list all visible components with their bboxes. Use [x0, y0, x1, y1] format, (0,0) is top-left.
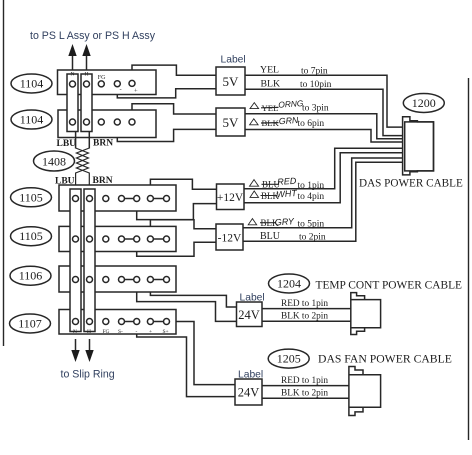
svg-text:to 7pin: to 7pin: [301, 67, 328, 77]
terminal block 1105a: [59, 185, 176, 211]
svg-text:TEMP CONT POWER CABLE: TEMP CONT POWER CABLE: [316, 280, 463, 292]
wire TB1104b plus to 5V: [132, 104, 216, 119]
svg-text:N: N: [71, 72, 75, 78]
terminal block 1106: [59, 266, 176, 292]
svg-text:DAS POWER CABLE: DAS POWER CABLE: [359, 178, 463, 190]
oval 1106: [10, 266, 51, 285]
pin labels 1107: [73, 329, 169, 335]
wire TB1106 plus to 24V(1204): [150, 283, 236, 307]
arrow down H: [85, 339, 93, 362]
terminal block 1104a: [58, 70, 157, 95]
svg-text:5V: 5V: [223, 74, 240, 89]
wire LBU drop: [75, 132, 77, 149]
wire TB1106 minus to 24V(1204): [137, 283, 237, 322]
connector 1205: [349, 367, 381, 416]
label BLU struck: [262, 180, 281, 190]
svg-text:to 4pin: to 4pin: [298, 192, 325, 202]
svg-text:1205: 1205: [277, 352, 301, 366]
oval 1204: [269, 274, 310, 293]
svg-text:YEL: YEL: [260, 64, 279, 75]
oval 1104b: [11, 110, 52, 129]
terminals 1107: [73, 319, 170, 325]
svg-text:GRN: GRN: [278, 115, 299, 126]
wire BRN drop: [88, 132, 90, 149]
delta mark 4: [250, 191, 259, 197]
oval 1408: [34, 151, 75, 171]
svg-text:1105: 1105: [19, 190, 43, 204]
label YEL struck: [262, 103, 279, 113]
svg-text:-12V: -12V: [218, 233, 242, 245]
svg-text:-: -: [136, 329, 138, 335]
svg-text:GRY: GRY: [274, 216, 295, 227]
wire GRN to 6pin: [245, 130, 403, 143]
svg-text:RED to 1pin: RED to 1pin: [281, 299, 328, 309]
wire BLK to 10pin: [245, 89, 403, 135]
delta mark 5: [248, 219, 257, 225]
connector 1200: [403, 117, 434, 175]
svg-text:to PS L Assy or PS H Assy: to PS L Assy or PS H Assy: [30, 30, 156, 42]
terminal block 1105b: [59, 226, 176, 251]
pin labels 1104a: [71, 72, 139, 95]
terminals 1106: [73, 277, 170, 283]
box 24V no.2: [235, 379, 262, 405]
box -12V: [216, 224, 243, 250]
svg-text:to 6pin: to 6pin: [298, 119, 325, 129]
oval 1107: [10, 314, 51, 333]
svg-text:24V: 24V: [238, 386, 260, 400]
svg-text:FG: FG: [98, 75, 106, 81]
wire TB1104a plus to 5V: [132, 65, 216, 80]
svg-text:BLK to 2pin: BLK to 2pin: [281, 389, 328, 399]
label BLK struck 3: [261, 218, 280, 228]
jumper links 1105b: [122, 238, 167, 240]
svg-text:BRN: BRN: [93, 139, 113, 149]
fuse strip H top: [81, 74, 92, 132]
svg-text:FG: FG: [103, 329, 110, 335]
jumper links 1107: [122, 321, 167, 323]
svg-text:LBU: LBU: [57, 139, 77, 149]
terminals 1105b: [73, 236, 170, 242]
label BLK struck: [262, 118, 280, 128]
jumper links 1106: [122, 279, 167, 281]
svg-text:5V: 5V: [223, 115, 240, 130]
svg-text:Label: Label: [221, 55, 246, 66]
svg-text:WHT: WHT: [276, 188, 299, 200]
wire TB1105b plus to -12V: [150, 220, 216, 236]
svg-text:-: -: [120, 87, 122, 94]
jumper links 1105a: [122, 198, 167, 200]
svg-text:S+: S+: [163, 329, 169, 335]
terminal block 1107: [59, 310, 176, 335]
svg-text:1105: 1105: [19, 229, 43, 243]
svg-text:1408: 1408: [42, 155, 66, 169]
svg-text:to 1pin: to 1pin: [298, 181, 325, 191]
wire BLU to 2pin: [243, 162, 403, 241]
wire TB1104a minus to 5V: [117, 87, 216, 98]
arrow down N: [71, 339, 79, 362]
oval 1105b: [11, 227, 52, 246]
svg-text:ORNG: ORNG: [278, 98, 304, 110]
delta mark 3: [250, 180, 259, 187]
box 5V no.1: [216, 67, 245, 95]
wire TB1107 minus to 24V(1205): [137, 325, 235, 397]
oval 1104a: [11, 74, 52, 93]
wire TB1105a plus to +12V: [150, 179, 216, 195]
fuse strip N bottom: [70, 189, 81, 332]
twisted pair 1408: [76, 148, 90, 189]
label BLK struck 2: [261, 191, 280, 201]
wire WHT to 4pin: [244, 153, 403, 203]
svg-text:BLU: BLU: [260, 231, 281, 242]
wire RED to 1pin: [244, 148, 403, 189]
svg-text:to 2pin: to 2pin: [299, 233, 326, 243]
connector 1204: [351, 293, 381, 335]
svg-text:RED: RED: [277, 176, 297, 187]
svg-text:N: N: [73, 329, 77, 335]
svg-text:RED to 1pin: RED to 1pin: [281, 376, 328, 386]
delta mark 2: [250, 119, 259, 125]
terminals 1104a: [70, 80, 136, 87]
svg-text:+: +: [134, 88, 138, 95]
wire BLK to 2pin (1204): [262, 320, 351, 322]
svg-text:DAS FAN POWER CABLE: DAS FAN POWER CABLE: [318, 353, 452, 366]
wire TB1105a minus to +12V: [137, 202, 217, 220]
oval 1105a: [11, 188, 52, 207]
svg-text:1104: 1104: [20, 113, 44, 127]
svg-text:1106: 1106: [19, 269, 43, 283]
svg-text:S-: S-: [118, 329, 123, 335]
wire YEL to 7pin: [245, 75, 403, 127]
svg-text:to 10pin: to 10pin: [300, 80, 332, 90]
border left: [3, 0, 5, 346]
svg-text:H: H: [85, 72, 89, 78]
svg-text:to 5pin: to 5pin: [298, 220, 325, 230]
svg-text:to Slip Ring: to Slip Ring: [61, 369, 115, 381]
svg-text:1204: 1204: [277, 277, 301, 291]
wire RED to 1pin (1204): [262, 308, 351, 310]
wire BLK to 2pin (1205): [262, 397, 349, 399]
svg-text:BLK: BLK: [261, 79, 281, 90]
wire TB1107 S+ to 24V(1205): [170, 322, 236, 385]
box 5V no.2: [216, 108, 245, 136]
oval 1200: [403, 94, 444, 113]
terminals 1105a: [73, 196, 170, 202]
oval 1205: [268, 349, 309, 368]
wire GRY to 5pin: [243, 158, 403, 228]
wire TB1104b minus to 5V: [117, 125, 216, 141]
delta mark 1: [250, 103, 259, 109]
svg-text:BLK to 2pin: BLK to 2pin: [281, 312, 328, 322]
svg-text:to 3pin: to 3pin: [302, 104, 329, 114]
svg-text:+12V: +12V: [217, 192, 244, 204]
wire ORNG to 3pin: [245, 114, 403, 139]
arrow up H: [82, 44, 90, 70]
svg-text:1200: 1200: [412, 96, 436, 110]
terminal block 1104b: [58, 110, 156, 138]
wire RED to 1pin (1205): [262, 385, 349, 387]
svg-text:24V: 24V: [238, 308, 260, 322]
box 24V no.1: [237, 302, 263, 327]
svg-text:+: +: [149, 329, 152, 335]
terminals 1104b: [70, 119, 136, 125]
svg-text:1107: 1107: [18, 317, 42, 331]
svg-text:1104: 1104: [20, 77, 44, 91]
box +12V: [217, 184, 245, 210]
border right: [468, 78, 470, 440]
fuse strip H bottom: [84, 189, 95, 332]
fuse strip N top: [67, 74, 78, 132]
arrow up N: [68, 44, 76, 70]
wire TB1105b minus to -12V: [137, 242, 216, 256]
svg-text:H: H: [87, 329, 91, 335]
